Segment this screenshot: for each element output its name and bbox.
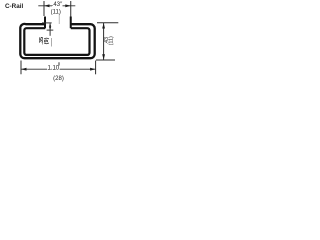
arrowhead mini down <box>49 27 51 30</box>
wire: left ear (slot lip upturn) <box>44 17 46 29</box>
wire: bottom dim right extension line <box>95 61 97 75</box>
wire: slot centerline (faint) <box>58 14 60 24</box>
value .43 <box>52 3 63 7</box>
svg-text:1.10: 1.10 <box>47 65 59 71</box>
arrowhead top-right <box>65 4 70 7</box>
wire: mini dim line <box>49 23 51 36</box>
wire: right dim top extension line <box>97 22 118 24</box>
value 1.10 <box>47 66 60 70</box>
wire: bottom dim left extension line <box>20 61 22 75</box>
arrowhead bottom-left <box>21 68 27 71</box>
wire: top dim right extension line <box>70 1 72 17</box>
wire: mini dim tick lower <box>47 29 54 31</box>
arrowhead top-left <box>44 4 50 7</box>
arrowhead right-bottom <box>102 54 105 60</box>
wire: top dimension line <box>38 5 75 7</box>
svg-text:.43″: .43″ <box>52 2 63 8</box>
wire: C-rail outer contour <box>20 24 94 58</box>
wire: top dim left extension bar <box>43 1 45 16</box>
wire: right dimension line <box>103 23 105 60</box>
wire: bottom dimension line <box>21 68 96 70</box>
wire: small center tick above 1.10 <box>58 62 60 65</box>
wire: mini dim tick upper <box>42 22 52 24</box>
svg-text:(28): (28) <box>53 76 64 82</box>
wire: right ear (slot lip upturn) <box>70 17 72 29</box>
wire: right dim bottom extension line <box>96 59 115 61</box>
svg-text:(11): (11) <box>108 36 114 45</box>
wire: C-rail inner contour <box>24 28 89 55</box>
arrowhead right-top <box>102 23 105 29</box>
svg-text:(9): (9) <box>44 37 50 44</box>
wire: faint stroke right of (9) <box>51 38 53 47</box>
arrowhead bottom-right <box>90 68 96 71</box>
arrowhead mini up <box>49 23 51 26</box>
svg-text:C-Rail: C-Rail <box>5 3 23 10</box>
